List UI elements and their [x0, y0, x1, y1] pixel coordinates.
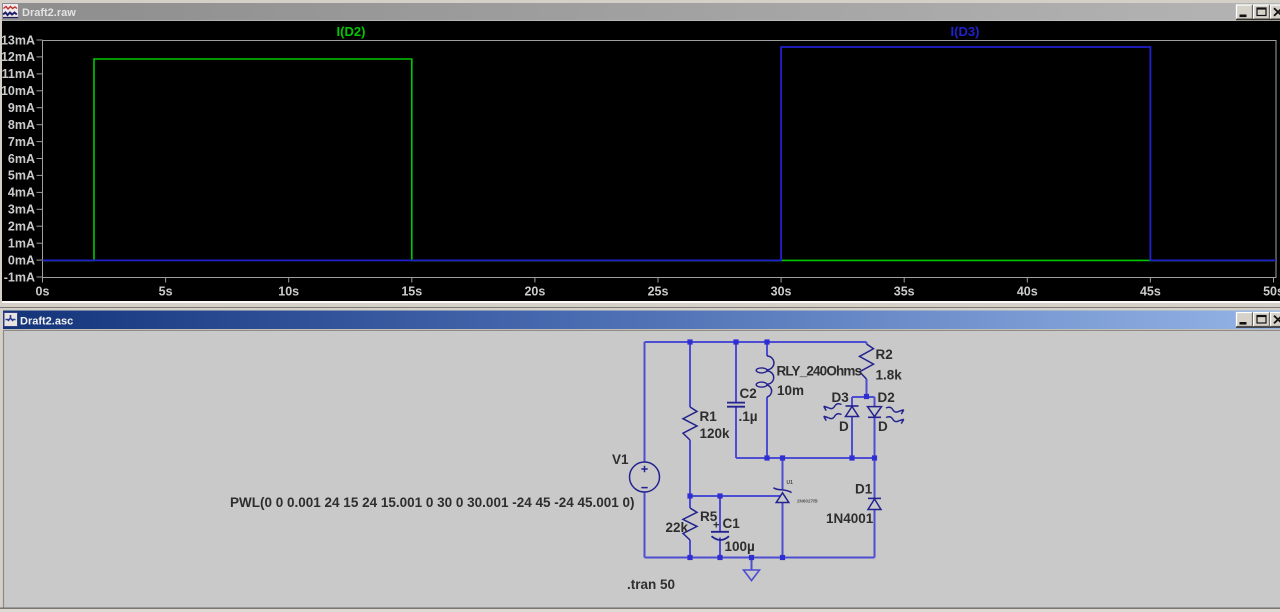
svg-text:1N4001: 1N4001: [826, 511, 874, 526]
svg-text:11mA: 11mA: [2, 67, 35, 81]
svg-text:1mA: 1mA: [8, 237, 35, 251]
svg-text:13mA: 13mA: [1, 33, 35, 47]
svg-text:7mA: 7mA: [8, 135, 35, 149]
svg-text:8mA: 8mA: [8, 118, 35, 132]
svg-text:40s: 40s: [1017, 285, 1038, 299]
svg-text:25s: 25s: [648, 285, 669, 299]
svg-text:+: +: [713, 520, 719, 532]
svg-text:10mA: 10mA: [1, 84, 35, 98]
svg-text:-1mA: -1mA: [4, 270, 35, 284]
svg-text:12mA: 12mA: [1, 50, 35, 64]
svg-text:5mA: 5mA: [8, 169, 35, 183]
svg-text:D1: D1: [855, 482, 873, 497]
svg-text:I(D3): I(D3): [951, 24, 980, 39]
svg-text:1.8k: 1.8k: [876, 368, 903, 383]
svg-text:10m: 10m: [777, 383, 804, 398]
svg-text:9mA: 9mA: [8, 101, 35, 115]
svg-text:4mA: 4mA: [8, 186, 35, 200]
svg-text:C2: C2: [740, 386, 757, 401]
svg-text:R1: R1: [700, 409, 718, 424]
svg-text:100µ: 100µ: [725, 539, 755, 554]
svg-text:0mA: 0mA: [8, 253, 35, 267]
svg-text:D2: D2: [878, 390, 895, 405]
svg-text:35s: 35s: [894, 285, 915, 299]
svg-text:2mA: 2mA: [8, 220, 35, 234]
svg-text:D: D: [878, 419, 888, 434]
svg-text:120k: 120k: [700, 426, 731, 441]
svg-text:22k: 22k: [666, 520, 689, 535]
svg-text:6mA: 6mA: [8, 152, 35, 166]
svg-text:Draft2.asc: Draft2.asc: [20, 316, 73, 328]
svg-text:U1: U1: [787, 480, 794, 486]
svg-text:30s: 30s: [771, 285, 792, 299]
svg-text:D3: D3: [832, 390, 850, 405]
svg-text:45s: 45s: [1140, 285, 1161, 299]
svg-text:Draft2.raw: Draft2.raw: [22, 7, 76, 19]
svg-text:R2: R2: [876, 347, 893, 362]
svg-text:15s: 15s: [401, 285, 422, 299]
svg-text:2N6027/B: 2N6027/B: [797, 499, 818, 504]
svg-text:10s: 10s: [278, 285, 299, 299]
svg-text:20s: 20s: [524, 285, 545, 299]
svg-text:D: D: [839, 419, 849, 434]
svg-text:.tran 50: .tran 50: [627, 577, 675, 592]
svg-text:RLY_240Ohms: RLY_240Ohms: [777, 364, 862, 379]
svg-text:.1µ: .1µ: [739, 409, 758, 424]
svg-text:50s: 50s: [1263, 285, 1280, 299]
svg-text:V1: V1: [612, 452, 629, 467]
svg-text:C1: C1: [723, 516, 741, 531]
svg-text:0s: 0s: [36, 285, 50, 299]
svg-text:5s: 5s: [159, 285, 173, 299]
svg-text:PWL(0 0 0.001 24 15 24 15.001: PWL(0 0 0.001 24 15 24 15.001 0 30 0 30.…: [230, 495, 635, 510]
svg-text:I(D2): I(D2): [337, 24, 366, 39]
svg-text:3mA: 3mA: [8, 203, 35, 217]
